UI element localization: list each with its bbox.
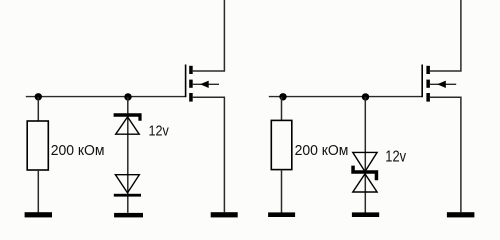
transistor Q1 body bar (189, 80, 193, 88)
diode VD2 cathode bar (114, 194, 141, 197)
wire Q1 source (193, 97, 225, 212)
wire R1 bottom (37, 170, 39, 212)
transistor Q1 source bar (189, 93, 193, 102)
TVS VD3 middle Z-bar (351, 166, 378, 181)
TVS VD3 top triangle (353, 152, 377, 171)
wire Q2 drain (430, 0, 461, 71)
wire Q1 drain (193, 0, 225, 71)
node B2 (junction dot at TVS branch) (362, 93, 369, 100)
wire gate net left (horizontal input wire) (26, 96, 186, 98)
TVS VD3 bottom triangle (353, 174, 377, 192)
wire R2 bottom (281, 170, 283, 213)
wire TVS branch vertical (364, 97, 366, 213)
svg-text:200 кОм: 200 кОм (295, 142, 349, 159)
resistor R1 body (27, 121, 48, 170)
zener diode VD1 triangle (116, 117, 140, 134)
node A2 (junction dot at zener branch) (124, 93, 131, 100)
transistor Q2 body arrow (437, 81, 446, 88)
svg-text:12v: 12v (149, 122, 170, 139)
ground (under Q1 source) (211, 212, 238, 217)
transistor Q2 body bar (426, 80, 430, 88)
ground (under VD2) (114, 213, 143, 218)
wire Q2 body lead (430, 83, 456, 85)
transistor Q1 body arrow (200, 81, 209, 88)
ground (under VD3) (352, 212, 379, 217)
wire zener branch vertical (127, 97, 129, 213)
ground (under R1) (25, 212, 52, 217)
transistor Q2 source bar (426, 93, 430, 102)
ground (under R2) (268, 212, 295, 217)
transistor Q1 gate lead (185, 65, 187, 98)
wire R2 top (281, 97, 283, 121)
node B1 (junction dot at resistor R2) (279, 93, 286, 100)
wire gate net right (horizontal input wire) (269, 96, 422, 98)
svg-text:200 кОм: 200 кОм (51, 142, 105, 159)
transistor Q2 drain bar (426, 66, 430, 74)
transistor Q2 gate lead (421, 65, 423, 98)
diode VD2 triangle (115, 175, 139, 193)
zener diode VD1 cathode bar with hook (114, 113, 142, 121)
wire Q1 body lead (193, 83, 219, 85)
node A1 (junction dot at resistor R1) (35, 93, 42, 100)
transistor Q1 drain bar (189, 66, 193, 74)
wire R1 top (37, 97, 39, 121)
wire Q2 source (430, 97, 461, 212)
ground (under Q2 source) (447, 212, 475, 217)
svg-text:12v: 12v (385, 148, 406, 165)
resistor R2 body (271, 120, 292, 169)
